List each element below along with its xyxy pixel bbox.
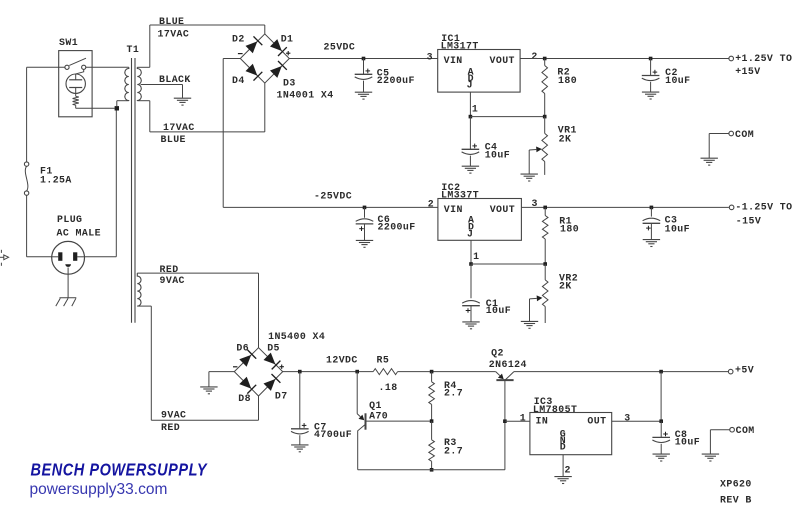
junction R1-VR2 <box>543 262 547 266</box>
junction ADJ <box>469 115 473 119</box>
svg-text:180: 180 <box>560 223 579 234</box>
svg-text:2: 2 <box>428 199 434 210</box>
ground C4 <box>462 166 479 173</box>
svg-text:10uF: 10uF <box>675 437 700 448</box>
wire lamp hook <box>76 70 84 75</box>
svg-text:1: 1 <box>520 413 526 424</box>
svg-text:2N6124: 2N6124 <box>489 359 527 370</box>
svg-text:.18: .18 <box>379 382 398 393</box>
svg-text:AC MALE: AC MALE <box>57 227 101 238</box>
ground IC3 <box>554 477 571 484</box>
svg-text:VIN: VIN <box>444 204 463 215</box>
svg-text:-1.25V TO: -1.25V TO <box>735 202 792 213</box>
svg-text:D5: D5 <box>267 343 280 354</box>
wire C3 drop <box>650 207 652 216</box>
wire R4 bottom <box>431 404 433 421</box>
transistor Q2 <box>496 379 513 381</box>
svg-text:LM337T: LM337T <box>441 189 479 200</box>
capacitor C3 <box>643 222 661 224</box>
svg-text:BLACK: BLACK <box>159 74 191 85</box>
svg-text:+5V: +5V <box>735 364 754 375</box>
diode D4 <box>246 64 258 76</box>
wire 9VAC bottom lead <box>137 305 151 307</box>
fuse F1 <box>24 162 28 166</box>
svg-text:Q1: Q1 <box>369 400 382 411</box>
svg-text:COM: COM <box>735 129 754 140</box>
potentiometer VR1 <box>542 133 548 161</box>
svg-text:A70: A70 <box>369 411 388 422</box>
svg-text:180: 180 <box>558 75 577 86</box>
svg-text:10uF: 10uF <box>665 75 690 86</box>
wire R4 drop <box>431 372 433 382</box>
svg-text:COM: COM <box>736 425 755 436</box>
svg-text:2200uF: 2200uF <box>377 75 415 86</box>
left edge connector symbol <box>0 250 2 253</box>
terminal -1.25V <box>729 205 734 210</box>
ground VR1 <box>521 174 538 181</box>
junction neutral node <box>115 106 119 110</box>
wire secondary top lead <box>137 66 150 68</box>
switch contact left <box>65 65 69 69</box>
secondary winding upper <box>137 67 141 100</box>
svg-text:Q2: Q2 <box>491 348 504 359</box>
ground C7 <box>291 445 308 452</box>
svg-text:17VAC: 17VAC <box>158 28 190 39</box>
wire ADJ2 to R1 <box>471 263 545 265</box>
capacitor C7 <box>291 428 309 430</box>
svg-text:+1.25V TO: +1.25V TO <box>735 53 792 64</box>
wire SW1 to transformer <box>86 66 129 68</box>
svg-text:2.7: 2.7 <box>444 388 463 399</box>
capacitor C1 <box>462 305 480 307</box>
ground bridge2 <box>200 387 217 394</box>
wire IC3 gnd <box>562 455 564 477</box>
plug AC male body <box>52 241 85 274</box>
svg-text:VOUT: VOUT <box>490 204 515 215</box>
wire 9VAC top lead <box>137 272 258 274</box>
svg-text:REV B: REV B <box>720 495 752 506</box>
svg-text:2K: 2K <box>559 281 572 292</box>
wire 12VDC rail <box>283 371 374 373</box>
plug ground pin <box>65 264 71 267</box>
capacitor C6 <box>356 223 374 225</box>
junction ADJ2 <box>469 262 473 266</box>
wire VOUT rail IC2 <box>521 206 729 208</box>
VR1 wiper arrow <box>529 148 536 151</box>
svg-text:4700uF: 4700uF <box>314 429 352 440</box>
diode D1 <box>270 39 282 51</box>
svg-text:-15V: -15V <box>736 216 761 227</box>
wire VR2 bottom <box>544 307 546 324</box>
neon lamp <box>66 74 85 93</box>
diode D5 <box>264 353 276 365</box>
terminal +1.25V <box>729 56 734 61</box>
ground C6 <box>356 240 373 247</box>
wire C6 drop <box>364 207 366 217</box>
bridge1 arms <box>240 34 289 83</box>
wire ADJ drop <box>469 92 471 117</box>
svg-text:OUT: OUT <box>587 416 606 427</box>
junction +5V <box>659 370 663 374</box>
junction R4 <box>430 370 434 374</box>
svg-text:IN: IN <box>536 416 549 427</box>
svg-text:2: 2 <box>531 51 537 62</box>
junction C8 <box>659 419 663 423</box>
svg-text:25VDC: 25VDC <box>324 42 356 53</box>
svg-text:VOUT: VOUT <box>490 55 515 66</box>
wire R2 bottom <box>544 94 546 117</box>
wire base to IC3 <box>505 420 530 422</box>
svg-text:12VDC: 12VDC <box>326 355 358 366</box>
wire R2 top <box>544 59 546 66</box>
wire lamp to neutral <box>75 105 77 108</box>
wire +5V to OUT <box>660 372 662 422</box>
junction R2 <box>543 57 547 61</box>
wire R1 bottom <box>544 239 546 264</box>
terminal +5V <box>728 369 733 374</box>
wire OUT <box>612 420 662 422</box>
wire center tap <box>141 84 183 86</box>
svg-text:D7: D7 <box>275 391 288 402</box>
svg-text:RED: RED <box>160 264 179 275</box>
ground center tap <box>174 98 191 105</box>
lamp resistor <box>73 96 79 105</box>
svg-text:2K: 2K <box>559 133 572 144</box>
wire C2 drop <box>650 59 652 76</box>
diode D2 <box>246 41 258 53</box>
svg-text:-25VDC: -25VDC <box>314 191 352 202</box>
wire rail after Q2 <box>514 371 729 373</box>
wire bridge1 minus out <box>223 58 240 60</box>
plug prong left <box>58 252 62 260</box>
svg-text:T1: T1 <box>127 44 140 55</box>
svg-text:10uF: 10uF <box>485 149 510 160</box>
junction R4-R3 <box>430 419 434 423</box>
switch SW1 box <box>59 51 92 117</box>
ground C5 <box>355 92 372 99</box>
junction C2 <box>649 57 653 61</box>
svg-text:BLUE: BLUE <box>159 16 184 27</box>
wire bottom return <box>358 469 505 471</box>
op-amp IC3 box <box>530 413 612 455</box>
svg-text:PLUG: PLUG <box>57 214 82 225</box>
svg-text:2200uF: 2200uF <box>378 222 416 233</box>
wire R3 top <box>431 421 433 440</box>
logo powersupply33.com <box>30 481 168 499</box>
svg-text:J: J <box>467 80 473 91</box>
svg-text:1N4001 X4: 1N4001 X4 <box>277 89 334 100</box>
svg-text:10uF: 10uF <box>665 223 690 234</box>
diode D6 <box>239 355 251 367</box>
svg-text:9VAC: 9VAC <box>160 275 185 286</box>
svg-text:LM317T: LM317T <box>441 40 479 51</box>
svg-text:D1: D1 <box>281 34 294 45</box>
wire plug right <box>85 256 117 258</box>
wire -25VDC rail <box>223 206 438 208</box>
svg-text:9VAC: 9VAC <box>161 410 186 421</box>
secondary winding lower 9VAC <box>137 273 141 306</box>
junction Q1 <box>355 370 359 374</box>
svg-text:D2: D2 <box>232 34 245 45</box>
svg-text:+15V: +15V <box>735 66 760 77</box>
terminal COM bottom <box>730 427 735 432</box>
diode D7 <box>264 379 276 391</box>
svg-text:RED: RED <box>161 422 180 433</box>
ground C3 <box>643 240 660 247</box>
wire C5 drop <box>363 59 365 75</box>
svg-text:SW1: SW1 <box>59 37 78 48</box>
wire VR2 top <box>544 264 546 280</box>
transistor Q1 <box>356 372 358 414</box>
svg-text:1.25A: 1.25A <box>40 175 72 186</box>
VR2 wiper arrow <box>530 297 537 300</box>
svg-text:XP620: XP620 <box>720 478 752 489</box>
diode D3 <box>270 66 282 78</box>
wire bridge1 top feed <box>264 25 266 34</box>
wire R1 top <box>544 207 546 215</box>
svg-text:2.7: 2.7 <box>444 446 463 457</box>
svg-text:3: 3 <box>427 51 433 62</box>
wire COM bottom <box>710 429 729 431</box>
capacitor C8 <box>652 436 670 438</box>
wire rail after R5 <box>398 371 496 373</box>
bridge2 plus <box>280 366 284 368</box>
transformer core <box>131 58 133 323</box>
junction Q2 base <box>503 419 507 423</box>
wire primary bottom <box>117 100 129 102</box>
wire VR1 top <box>544 117 546 134</box>
junction C5 <box>362 57 366 61</box>
wire AC hot from SW1 to fuse <box>27 66 65 68</box>
wire ADJ to R2 <box>470 116 544 118</box>
wire R3 bottom <box>431 461 433 470</box>
bridge2 arms <box>234 348 282 396</box>
op-amp IC2 box <box>438 199 522 241</box>
junction C6 <box>363 206 367 210</box>
svg-text:1: 1 <box>473 251 479 262</box>
svg-text:D: D <box>560 442 566 453</box>
svg-text:2: 2 <box>565 465 571 476</box>
wire into right prong <box>77 256 84 258</box>
wire into left prong <box>52 256 58 258</box>
primary winding <box>125 67 129 100</box>
wire secondary bottom lead <box>137 100 150 102</box>
wire plug earth <box>67 268 69 298</box>
wire fuse drop <box>26 67 28 162</box>
bridge1 plus <box>286 52 290 54</box>
wire Q1 base <box>366 420 431 422</box>
diode D8 <box>239 377 251 389</box>
switch lever <box>69 58 86 65</box>
op-amp IC1 box <box>438 50 520 93</box>
junction R3 bottom <box>430 468 434 472</box>
ground COM bottom <box>702 454 719 461</box>
switch contact right <box>82 65 86 69</box>
chassis ground <box>60 297 77 299</box>
wire C1 drop <box>470 264 472 298</box>
svg-text:1: 1 <box>472 104 478 115</box>
wire C8 drop <box>660 421 662 437</box>
wire bridge2 bottom <box>258 396 260 420</box>
capacitor C4 <box>462 148 480 150</box>
capacitor C2 <box>642 75 660 77</box>
logo BENCH POWERSUPPLY <box>31 461 208 480</box>
ground VR2 <box>521 321 538 328</box>
bridge1 minus <box>238 53 243 55</box>
ground C1 <box>462 322 479 329</box>
wire VOUT rail <box>520 58 729 60</box>
resistor R1 <box>542 216 548 240</box>
svg-text:17VAC: 17VAC <box>163 122 195 133</box>
svg-text:1N5400 X4: 1N5400 X4 <box>268 331 325 342</box>
wire bridge1 bottom <box>264 83 266 132</box>
terminal COM top <box>729 131 734 136</box>
wire COM top <box>709 133 729 135</box>
resistor R5 <box>373 369 397 375</box>
wire C7 drop <box>299 372 301 429</box>
resistor R3 <box>429 440 435 461</box>
junction C7 <box>298 370 302 374</box>
ground C8 <box>653 454 670 461</box>
wire VR2 wiper <box>529 299 531 322</box>
bridge2 minus <box>233 366 237 368</box>
plug prong right <box>73 252 77 260</box>
resistor R2 <box>542 66 548 94</box>
wire VR1 bottom <box>544 162 546 175</box>
svg-text:BLUE: BLUE <box>161 134 186 145</box>
ground COM top <box>701 158 718 165</box>
wire C4 drop <box>469 117 471 150</box>
wire fuse to plug <box>26 195 28 256</box>
svg-text:LM7805T: LM7805T <box>533 404 577 415</box>
wire 25VDC rail <box>289 58 437 60</box>
ground C2 <box>642 92 659 99</box>
wire VR1 wiper <box>528 150 530 174</box>
svg-text:3: 3 <box>624 412 630 423</box>
wire bridge2 minus <box>209 371 234 373</box>
potentiometer VR2 <box>542 280 548 307</box>
svg-text:D8: D8 <box>238 393 251 404</box>
junction C3 <box>650 206 654 210</box>
wire ADJ2 drop <box>470 240 472 264</box>
junction R1 <box>543 206 547 210</box>
svg-text:D6: D6 <box>236 343 249 354</box>
capacitor C5 <box>355 73 373 75</box>
svg-text:10uF: 10uF <box>486 305 511 316</box>
svg-text:VIN: VIN <box>444 55 463 66</box>
svg-text:R5: R5 <box>377 355 390 366</box>
svg-text:J: J <box>467 229 473 240</box>
junction R2-VR1 <box>543 115 547 119</box>
resistor R4 <box>429 382 435 405</box>
svg-text:D4: D4 <box>232 75 245 86</box>
svg-text:D3: D3 <box>283 78 296 89</box>
